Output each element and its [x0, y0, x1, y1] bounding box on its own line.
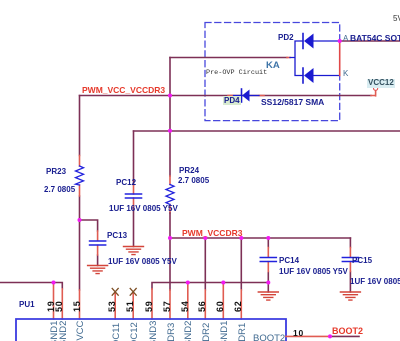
- capacitor PC14: [260, 258, 276, 262]
- junction dot PC12 branch: [168, 129, 172, 133]
- junction dot left ground rail: [52, 281, 56, 285]
- pin 53 stub: [114, 294, 116, 320]
- pin 50 stub: [61, 289, 63, 319]
- capacitor PC12: [126, 194, 142, 198]
- wire pin56 vertical: [204, 238, 206, 290]
- wire BOOT2: [330, 335, 359, 337]
- pin name VCC (pin 15): [76, 321, 86, 341]
- capacitor PC15: [342, 258, 358, 262]
- label PD4 highlighted: [223, 96, 242, 105]
- junction dot at A node: [338, 39, 342, 43]
- pin 60 stub: [222, 284, 224, 319]
- label PC12: [116, 179, 136, 187]
- pin name OC12 (pin 51): [130, 322, 140, 341]
- label PR23: [46, 168, 66, 176]
- label PU1: [19, 301, 35, 309]
- pin number 62: [234, 300, 243, 312]
- pin number 15: [73, 300, 82, 312]
- junction dot PWM_VCCDR3 x205: [203, 236, 207, 240]
- label PR24: [179, 167, 199, 175]
- value PC13: [108, 258, 177, 266]
- junction dot PWM_VCC x170: [168, 94, 172, 98]
- ground for PC15: [340, 292, 360, 300]
- power label VCC12: [367, 79, 395, 88]
- pin name LDR2 (pin 56): [202, 323, 212, 341]
- pin 59 stub: [151, 289, 153, 319]
- value PR23: [44, 186, 75, 194]
- pin 19 stub: [53, 284, 55, 319]
- pin number 53: [108, 300, 117, 312]
- value PC14: [279, 268, 348, 276]
- wire PWM_VCCDR3 rail: [170, 237, 350, 239]
- wire VCC12 red tail: [371, 90, 376, 96]
- capacitor PC12 pins: [133, 185, 135, 208]
- junction dot pin 60: [221, 281, 225, 285]
- wire PC13 branch: [80, 220, 98, 266]
- pin number 60: [216, 300, 225, 312]
- wire KA red tip: [287, 57, 290, 59]
- pin number 51: [126, 300, 135, 312]
- junction dot BOOT2: [328, 334, 332, 338]
- pin 62 stub: [240, 290, 242, 319]
- junction dot PWM_VCCDR3 x241: [239, 236, 243, 240]
- pin number 57: [163, 300, 172, 312]
- diode PD4 red pin tips: [228, 95, 264, 97]
- pin name GND1 (pin 60): [220, 321, 230, 341]
- label KA: [266, 61, 280, 71]
- pin number 56: [198, 300, 207, 312]
- value PR24: [178, 177, 209, 185]
- capacitor PC13 pins: [97, 231, 99, 255]
- pin name BOOT2: [253, 334, 285, 341]
- label PD2: [278, 34, 294, 42]
- wire pin62 vertical: [240, 238, 242, 290]
- pin name LDR3 (pin 57): [167, 323, 177, 341]
- label BAT54C SOT23: [350, 34, 400, 43]
- wire PC12 vertical: [133, 131, 135, 247]
- wire ground rail right: [152, 283, 268, 290]
- pin number 54: [181, 300, 190, 312]
- wire vertical x170 upper: [169, 58, 171, 177]
- label PC15: [352, 257, 372, 265]
- junction dot PC13 branch: [78, 218, 82, 222]
- power symbol VCC12 circle: [374, 86, 378, 90]
- wire PWM_VCC_VCCDR3 horizontal: [80, 95, 372, 97]
- wire KA horizontal: [170, 57, 287, 59]
- pin name GND2 (pin 54): [184, 321, 194, 341]
- resistor PR23 pins: [79, 156, 81, 197]
- no-connect X pin 51: [130, 288, 136, 295]
- wire vertical x170 lower: [169, 213, 171, 290]
- label 5V corner: [393, 15, 400, 23]
- label K: [343, 70, 348, 78]
- ground for PC12: [124, 247, 144, 255]
- resistor PR24 pins: [169, 176, 171, 213]
- label PC13: [107, 232, 127, 240]
- junction dot PC14 ground: [266, 281, 270, 285]
- label A: [343, 35, 348, 43]
- resistor PR23: [76, 166, 84, 185]
- capacitor PC15 pins: [349, 248, 351, 272]
- pin name OC11 (pin 53): [112, 323, 122, 341]
- pin 54 stub: [187, 284, 189, 319]
- pin 15 stub: [79, 290, 81, 319]
- label SS12/5817 SMA: [261, 98, 324, 107]
- pin name GND1 (pin 19): [50, 321, 60, 341]
- value PC12: [109, 205, 178, 213]
- capacitor PC14 pins: [267, 248, 269, 272]
- diode PD4: [234, 89, 260, 102]
- junction dot PWM_VCCDR3 x170: [168, 236, 172, 240]
- net label BOOT2: [332, 327, 363, 336]
- value PC15: [350, 278, 400, 286]
- ground for PC14: [258, 292, 278, 300]
- no-connect X pin 53: [112, 288, 118, 295]
- wire A-K vertical: [339, 41, 341, 76]
- dashed Pre-OVP box: [205, 23, 340, 121]
- wire PC14 vertical: [267, 238, 269, 292]
- wire vertical x80: [79, 96, 81, 291]
- net label PWM_VCC_VCCDR3: [82, 86, 165, 95]
- net label PWM_VCCDR3: [182, 229, 242, 238]
- IC PU1 outline: [16, 319, 286, 341]
- wire PC15 vertical: [349, 238, 351, 292]
- ground for PC13: [88, 266, 108, 274]
- pin 51 stub: [132, 294, 134, 320]
- pin number 19: [47, 300, 56, 312]
- wire ground rail left: [0, 283, 62, 290]
- pin 56 stub: [204, 290, 206, 319]
- pin number 10: [293, 329, 304, 338]
- pin name GND3 (pin 59): [149, 321, 159, 341]
- pin 57 stub: [169, 290, 171, 319]
- pin name GND2 (pin 50): [59, 321, 69, 341]
- capacitor PC13: [90, 241, 106, 245]
- pin number 50: [55, 300, 64, 312]
- junction dot PWM_VCCDR3 x268: [266, 236, 270, 240]
- pin number 59: [145, 300, 154, 312]
- label PC14: [279, 257, 299, 265]
- wire A node out to right: [340, 40, 400, 42]
- junction dot pin 54: [186, 281, 190, 285]
- wire W3 horizontal y131: [134, 130, 400, 132]
- pin name LDR1 (pin 62): [238, 323, 248, 341]
- op-amp region: PD2 dual diode symbol: [290, 34, 339, 84]
- label Pre-OVP Circuit: [206, 70, 267, 77]
- resistor PR24: [166, 185, 174, 205]
- pin 10 stub: [286, 335, 330, 337]
